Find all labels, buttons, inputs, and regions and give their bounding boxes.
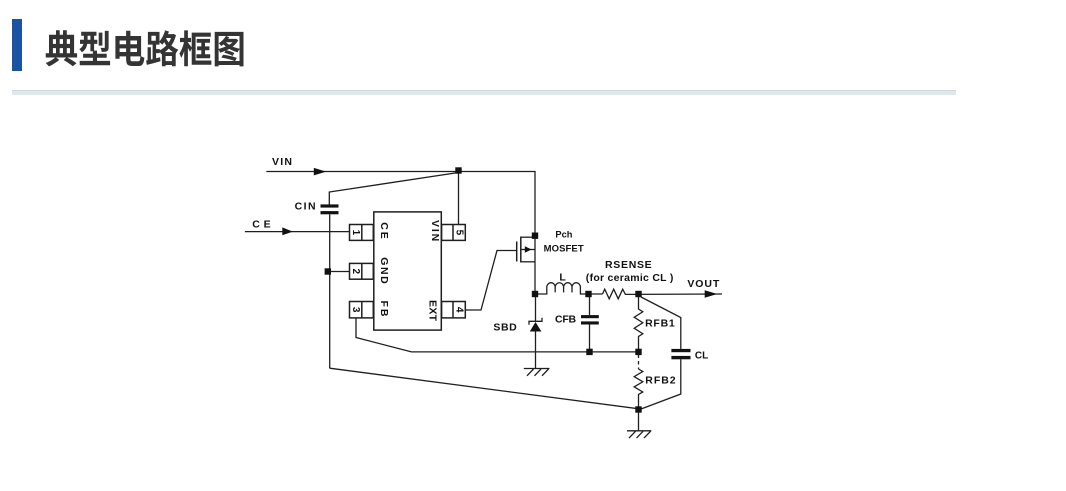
svg-text:2: 2 <box>350 269 361 275</box>
node VIN/pin5 junction <box>455 167 461 173</box>
capacitor CIN plates <box>321 204 339 207</box>
capacitor CL wires <box>641 297 681 349</box>
ic body U1 <box>374 212 442 330</box>
transistor Q1 channel bar <box>520 237 522 263</box>
node VOUT junction <box>635 291 641 297</box>
capacitor CFB wires <box>589 294 591 315</box>
node GND tap junction <box>325 268 331 274</box>
arrowhead CE <box>282 227 293 235</box>
node LX junction <box>532 291 538 297</box>
resistor RSENSE zigzag <box>603 289 723 299</box>
svg-text:(for ceramic CL ): (for ceramic CL ) <box>586 272 674 284</box>
wire pin5 riser <box>458 172 460 225</box>
svg-text:1: 1 <box>350 230 361 236</box>
pin 4 box <box>442 302 466 318</box>
resistor RFB1 <box>634 294 643 352</box>
svg-text:L: L <box>559 272 566 284</box>
capacitor CL plates <box>671 349 690 352</box>
arrowhead VIN <box>314 168 326 176</box>
diode SBD anode wire <box>535 294 537 322</box>
node ground junction <box>635 406 641 412</box>
wire pin2 GND tap <box>330 271 350 273</box>
transistor Q1 gate bar <box>516 242 518 262</box>
svg-text:5: 5 <box>454 230 465 236</box>
separator rule <box>12 90 956 95</box>
svg-text:GND: GND <box>378 257 390 285</box>
svg-text:Pch: Pch <box>555 230 572 240</box>
svg-text:FB: FB <box>378 301 390 319</box>
svg-text:3: 3 <box>350 307 361 313</box>
svg-text:RFB2: RFB2 <box>645 375 676 387</box>
ground under SBD <box>524 369 550 376</box>
inductor L coil <box>535 283 603 294</box>
arrowhead VOUT <box>705 290 718 298</box>
transistor Q1 stubs and conductor <box>521 236 535 238</box>
svg-text:EXT: EXT <box>427 300 439 322</box>
node CFB top junction <box>585 291 591 297</box>
pin 2 box <box>350 263 374 279</box>
svg-text:RSENSE: RSENSE <box>605 259 652 271</box>
diode SBD triangle <box>530 322 542 332</box>
svg-text:CE: CE <box>378 222 390 241</box>
svg-text:CIN: CIN <box>295 201 317 213</box>
wire CE input <box>245 231 350 233</box>
pin 5 box <box>442 225 466 241</box>
wire CIN lower / left vertical <box>329 214 331 368</box>
wire pin4 to gate <box>465 251 516 311</box>
header accent bar <box>12 19 22 71</box>
svg-text:VIN: VIN <box>429 220 441 243</box>
svg-text:MOSFET: MOSFET <box>544 243 584 254</box>
wire long bottom diagonal to ground node <box>330 368 638 409</box>
transistor Q1 arrow <box>525 246 532 252</box>
resistor RFB2 <box>634 369 643 407</box>
pin 1 box <box>350 225 374 241</box>
svg-text:CE: CE <box>252 218 274 230</box>
diode SBD cathode bar <box>529 318 542 325</box>
svg-text:CFB: CFB <box>555 314 576 326</box>
svg-text:RFB1: RFB1 <box>645 318 675 330</box>
pin 3 box <box>350 302 374 318</box>
capacitor CFB plates <box>581 315 599 318</box>
node MOSFET source junction <box>532 233 538 239</box>
node FB junction <box>635 349 641 355</box>
svg-text:SBD: SBD <box>493 321 517 333</box>
wire VIN rail <box>266 172 535 237</box>
resistor RFB2 dashed link <box>638 355 640 370</box>
wire FB line <box>356 318 639 352</box>
title 典型电路框图 (vector outlines) <box>0 0 300 80</box>
wire diagonal VIN to CIN <box>329 173 458 205</box>
svg-text:VOUT: VOUT <box>687 278 720 290</box>
ground bottom right <box>627 431 651 438</box>
node CFB bottom junction <box>586 349 592 355</box>
svg-text:VIN: VIN <box>272 156 293 168</box>
wire ground node drop <box>638 410 640 431</box>
svg-text:4: 4 <box>454 307 465 313</box>
svg-text:CL: CL <box>695 350 708 361</box>
